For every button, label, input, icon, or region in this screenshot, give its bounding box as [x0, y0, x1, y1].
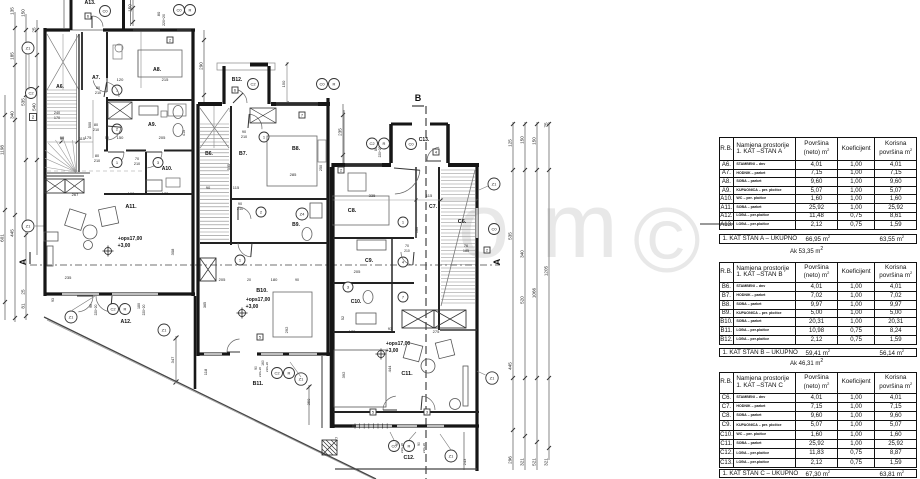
svg-text:80: 80	[156, 11, 161, 16]
svg-text:A12.: A12.	[121, 319, 133, 325]
svg-text:C9.: C9.	[365, 258, 374, 264]
svg-text:R: R	[408, 443, 411, 448]
svg-text:+ops17,00: +ops17,00	[118, 236, 143, 242]
svg-text:90: 90	[417, 442, 421, 446]
svg-text:205: 205	[219, 277, 226, 282]
svg-text:C0: C0	[408, 141, 414, 146]
svg-text:521: 521	[532, 458, 537, 466]
svg-text:210: 210	[241, 135, 247, 139]
svg-text:210: 210	[93, 128, 99, 132]
svg-text:Z1: Z1	[69, 314, 74, 319]
svg-text:C2: C2	[110, 306, 116, 311]
svg-text:90: 90	[60, 135, 65, 140]
svg-text:81: 81	[21, 303, 26, 309]
svg-text:601: 601	[0, 234, 5, 242]
svg-text:Z1: Z1	[490, 375, 495, 380]
svg-text:160: 160	[415, 227, 419, 233]
svg-text:220+20: 220+20	[258, 367, 262, 377]
svg-text:290: 290	[199, 62, 204, 70]
svg-text:Z1: Z1	[492, 181, 497, 186]
svg-text:70: 70	[135, 157, 139, 161]
svg-text:115: 115	[426, 193, 433, 198]
svg-text:173: 173	[162, 191, 169, 196]
svg-text:180: 180	[271, 277, 278, 282]
svg-text:+ops17,00: +ops17,00	[246, 297, 271, 303]
svg-text:A7.: A7.	[92, 75, 101, 81]
svg-text:20: 20	[247, 278, 251, 282]
svg-text:B10.: B10.	[256, 288, 268, 294]
svg-text:B11.: B11.	[253, 381, 264, 387]
svg-text:R: R	[333, 81, 336, 86]
svg-text:220+20: 220+20	[94, 304, 98, 315]
svg-text:321: 321	[520, 458, 525, 466]
svg-text:Z1: Z1	[162, 327, 167, 332]
svg-text:C2: C2	[250, 81, 256, 86]
svg-text:172: 172	[349, 329, 356, 334]
svg-text:A10.: A10.	[162, 166, 173, 172]
svg-text:292: 292	[284, 326, 289, 333]
svg-text:215: 215	[162, 77, 169, 82]
svg-text:444: 444	[387, 365, 392, 372]
svg-text:267: 267	[72, 192, 79, 197]
svg-text:243: 243	[462, 458, 467, 465]
svg-text:445: 445	[10, 229, 15, 237]
svg-text:220+20: 220+20	[422, 443, 426, 453]
svg-text:50: 50	[105, 136, 109, 140]
svg-text:B: B	[415, 93, 422, 103]
svg-text:C12.: C12.	[404, 455, 416, 461]
svg-text:296: 296	[508, 456, 513, 464]
svg-text:150: 150	[532, 137, 537, 145]
svg-text:Z1: Z1	[299, 376, 304, 381]
svg-text:220+20: 220+20	[265, 362, 269, 372]
svg-text:210: 210	[94, 159, 100, 163]
svg-text:135: 135	[10, 7, 15, 15]
svg-text:A6.: A6.	[56, 84, 64, 90]
svg-text:340: 340	[520, 250, 525, 258]
svg-text:185: 185	[463, 249, 469, 253]
svg-text:R: R	[383, 141, 386, 146]
svg-text:C7.: C7.	[429, 204, 438, 210]
svg-text:93: 93	[388, 326, 393, 331]
svg-text:275: 275	[433, 329, 440, 334]
svg-text:365: 365	[203, 302, 207, 308]
svg-text:75: 75	[544, 122, 549, 128]
svg-text:347: 347	[170, 356, 175, 363]
svg-text:Z1: Z1	[449, 453, 454, 458]
svg-text:R: R	[124, 306, 127, 311]
svg-text:235: 235	[338, 128, 343, 136]
svg-text:C11.: C11.	[401, 371, 413, 377]
svg-text:335: 335	[369, 193, 376, 198]
svg-text:308: 308	[170, 248, 175, 255]
svg-text:120: 120	[117, 77, 124, 82]
svg-text:90: 90	[89, 304, 93, 308]
svg-text:210: 210	[404, 249, 410, 253]
svg-text:C8.: C8.	[348, 208, 357, 214]
svg-text:540: 540	[32, 103, 37, 111]
svg-text:90: 90	[395, 442, 399, 446]
svg-text:520: 520	[520, 296, 525, 304]
svg-text:180: 180	[137, 303, 141, 309]
svg-text:220+20: 220+20	[142, 304, 146, 315]
svg-text:+3,00: +3,00	[246, 304, 259, 310]
svg-text:1198: 1198	[0, 145, 5, 155]
svg-text:B8.: B8.	[292, 146, 301, 152]
svg-text:90: 90	[295, 278, 299, 282]
svg-text:170: 170	[54, 116, 60, 120]
svg-text:A13.: A13.	[85, 0, 97, 6]
svg-text:90: 90	[238, 202, 242, 206]
svg-text:C0: C0	[319, 81, 325, 86]
svg-text:+3,00: +3,00	[118, 243, 131, 249]
svg-text:210: 210	[95, 91, 101, 95]
svg-text:C0: C0	[176, 7, 182, 12]
svg-text:A11.: A11.	[125, 204, 137, 210]
svg-text:C2: C2	[274, 370, 280, 375]
svg-text:350: 350	[306, 398, 311, 405]
svg-text:C13.: C13.	[419, 137, 430, 143]
svg-text:76: 76	[464, 244, 468, 248]
svg-text:205: 205	[354, 269, 361, 274]
svg-text:R: R	[189, 7, 192, 12]
svg-text:150: 150	[117, 135, 124, 140]
svg-text:C10.: C10.	[351, 299, 362, 305]
svg-text:1066: 1066	[532, 287, 537, 298]
svg-text:175: 175	[85, 135, 92, 140]
svg-text:C2: C2	[369, 141, 375, 146]
svg-text:B7.: B7.	[239, 151, 248, 157]
svg-text:115: 115	[233, 185, 240, 190]
svg-text:A9.: A9.	[148, 122, 157, 128]
svg-text:90: 90	[206, 185, 211, 190]
svg-text:445: 445	[508, 362, 513, 370]
svg-text:210: 210	[134, 162, 140, 166]
svg-text:70: 70	[405, 244, 409, 248]
svg-text:80: 80	[96, 86, 100, 90]
svg-text:90: 90	[242, 130, 246, 134]
svg-text:150: 150	[520, 136, 525, 144]
svg-text:150: 150	[21, 9, 26, 17]
svg-text:125: 125	[508, 139, 513, 147]
svg-text:535: 535	[227, 164, 231, 170]
svg-text:285: 285	[290, 172, 297, 177]
svg-text:A: A	[492, 258, 502, 265]
svg-text:250: 250	[319, 165, 323, 171]
svg-text:1205: 1205	[544, 265, 549, 276]
svg-text:535: 535	[508, 232, 513, 240]
svg-text:©: ©	[633, 190, 701, 292]
svg-text:A8.: A8.	[153, 67, 162, 73]
svg-text:25: 25	[32, 27, 37, 33]
svg-text:om: om	[458, 175, 650, 277]
svg-text:321: 321	[544, 458, 549, 466]
svg-text:Z4: Z4	[300, 211, 305, 216]
svg-text:535: 535	[21, 98, 26, 106]
svg-text:240: 240	[54, 111, 60, 115]
svg-text:C6.: C6.	[458, 219, 467, 225]
svg-text:500: 500	[88, 122, 92, 128]
svg-text:220+20: 220+20	[162, 14, 166, 26]
svg-text:235: 235	[65, 275, 72, 280]
svg-text:B6.: B6.	[205, 151, 213, 157]
svg-text:205: 205	[159, 135, 166, 140]
svg-text:80: 80	[95, 154, 99, 158]
svg-text:C0: C0	[491, 226, 497, 231]
svg-text:A: A	[18, 258, 28, 265]
svg-text:150: 150	[128, 4, 133, 12]
svg-text:Z1: Z1	[26, 45, 31, 50]
svg-text:B12.: B12.	[232, 77, 243, 83]
svg-text:93: 93	[51, 298, 55, 302]
svg-text:+3,00: +3,00	[386, 348, 399, 354]
svg-text:415: 415	[182, 130, 186, 136]
svg-text:340: 340	[10, 111, 15, 119]
svg-text:80: 80	[94, 123, 98, 127]
svg-text:52: 52	[341, 316, 345, 320]
svg-text:25: 25	[21, 289, 26, 295]
svg-text:R: R	[288, 370, 291, 375]
svg-text:392: 392	[341, 371, 346, 378]
svg-text:220+20: 220+20	[400, 443, 404, 453]
svg-text:B9.: B9.	[292, 222, 300, 228]
svg-text:Z1: Z1	[26, 223, 31, 228]
svg-text:118: 118	[203, 368, 208, 375]
svg-text:150: 150	[281, 80, 286, 87]
svg-text:C0: C0	[102, 8, 108, 13]
svg-text:185: 185	[10, 52, 15, 60]
svg-text:100: 100	[128, 191, 135, 196]
svg-text:C2: C2	[28, 90, 34, 95]
